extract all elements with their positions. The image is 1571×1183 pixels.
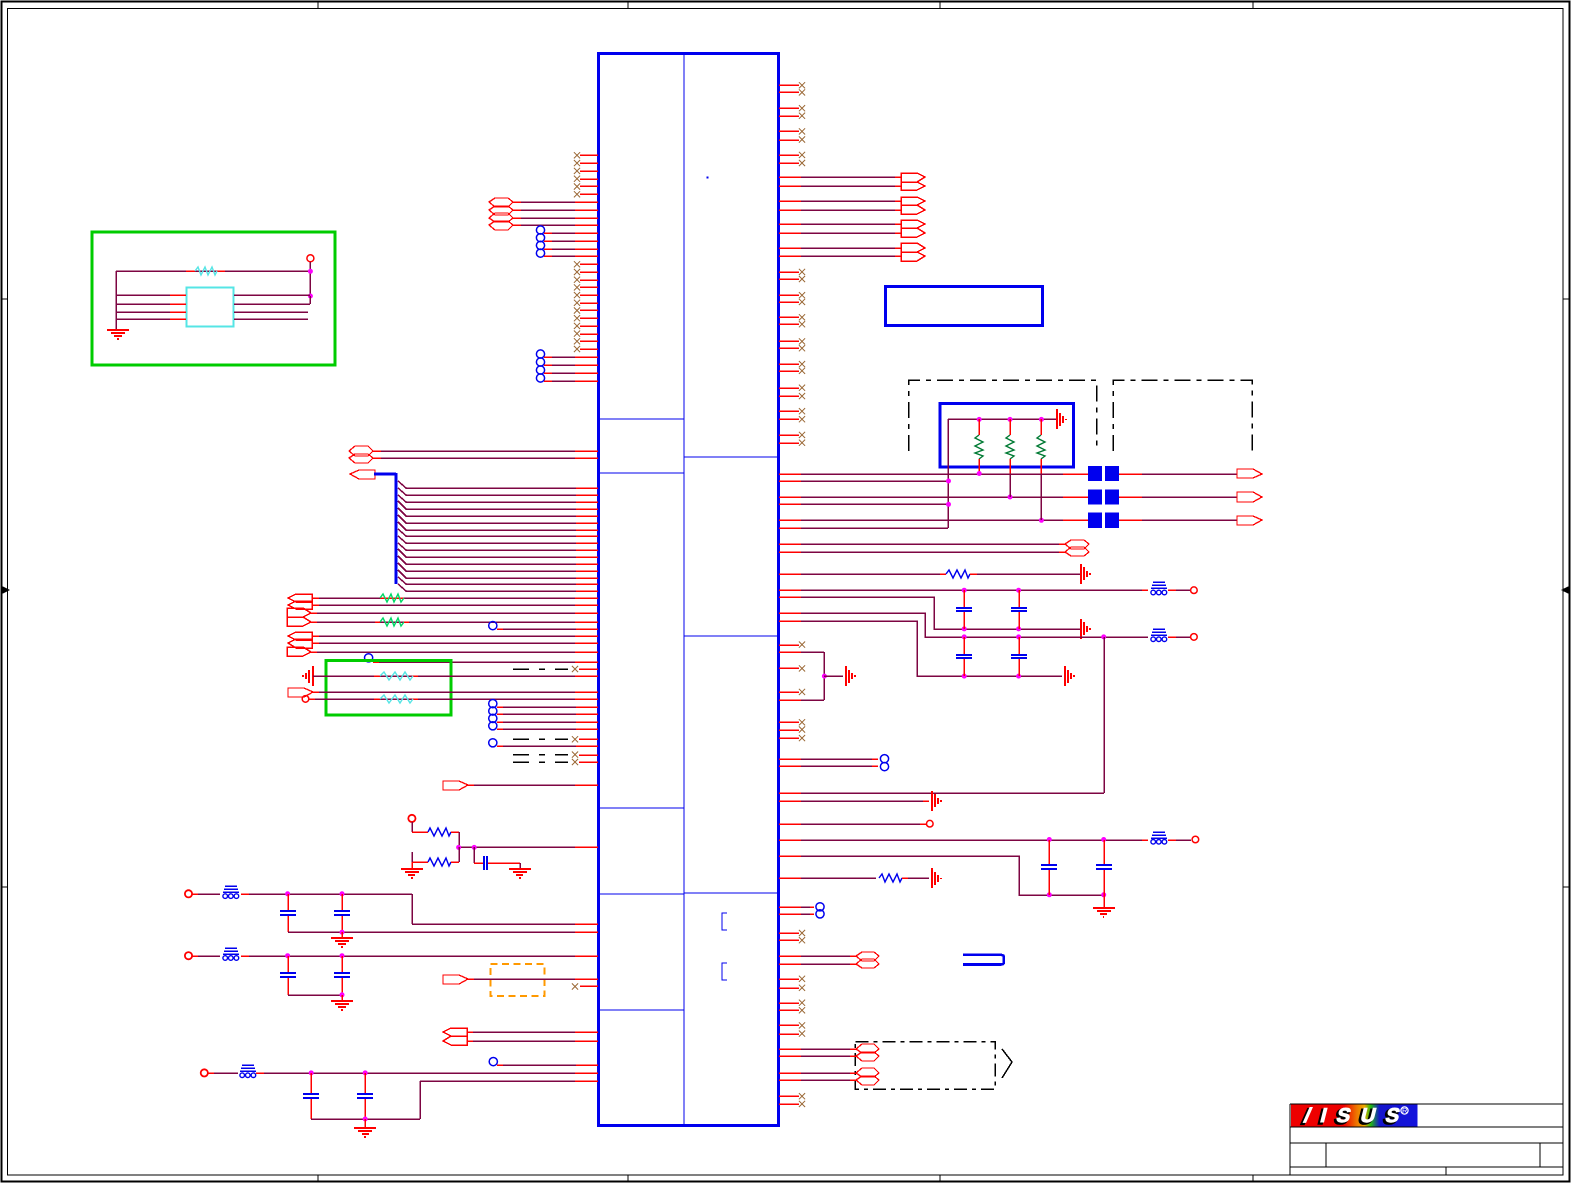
net bus with arrow connector [350, 470, 396, 584]
ferrite bead FB2 [223, 948, 239, 960]
left no-connect pin stubs group D [574, 261, 598, 352]
right open-circle pins rows 759-766 [779, 755, 889, 771]
title block grid [1290, 1104, 1563, 1175]
capacitor C bead2 b [334, 956, 350, 995]
wire row 793 to vertical net [779, 792, 1104, 794]
dash-dot box 1 [909, 380, 1097, 451]
sideways ground and wire row 676 [303, 666, 598, 686]
left open-circle pins group C [536, 226, 598, 257]
dash-dot box 2 [1113, 380, 1252, 451]
capacitor C row 840b [1096, 840, 1112, 895]
left double chevron connectors rows 636-643 [288, 632, 598, 648]
input circle and leads bead circuit 1 [185, 890, 249, 897]
blue resistor pack box [940, 404, 1073, 467]
right double chevron connectors rows 177-256 [779, 173, 925, 261]
open circle node and lead [408, 815, 428, 832]
dash-dot no-connect row 739 [513, 736, 598, 742]
left double chevron connectors rows 598-605 [288, 594, 598, 609]
input circle and leads bead circuit 2 [185, 952, 249, 959]
svg-text:R: R [1402, 1106, 1408, 1115]
right no-connect pin stubs group B [779, 269, 805, 446]
arrow connector row 497 [1119, 492, 1262, 502]
capacitor C bead3 b [357, 1073, 373, 1119]
right hexagon connectors rows 544-552 [779, 540, 1089, 556]
orange dashed box [490, 964, 544, 996]
arrow connector row 979 [443, 975, 598, 984]
IC U1 main block [599, 54, 779, 1126]
blue label box [885, 286, 1042, 325]
wire row 590 to bead [779, 588, 1148, 593]
arrow connector row 520 [1119, 516, 1262, 525]
IC U2 (cyan box) [186, 288, 233, 327]
open circle and wire row 699 [302, 696, 598, 703]
jumper symbol [963, 955, 1004, 965]
right no-connect stubs rows 933-940 [779, 930, 805, 943]
resistor R3 termination [1037, 419, 1045, 520]
vertical net 1104 [1103, 637, 1105, 793]
bus entry wires to IC left pins [398, 481, 598, 591]
bead output circle row 590 [1168, 587, 1197, 594]
ASUS logo [1291, 1105, 1418, 1129]
wire row 597 step to ground rail 629 [779, 597, 1090, 639]
wire row 613 step to bead rail 637 [779, 613, 1148, 639]
capacitor C row 637a [956, 637, 972, 676]
left open-circle pins group F rows 707-729 [489, 700, 598, 730]
wire row 801 to sideways ground [779, 791, 941, 811]
right open-circle pins rows 907-914 [779, 903, 824, 918]
ferrite bead FB4 [1151, 582, 1167, 595]
resistor R row 621 [375, 618, 409, 626]
open-circle pin row 1065 [489, 1058, 598, 1066]
resistor pack common rail and sideways ground [948, 409, 1066, 528]
capacitor C bead1 b [334, 894, 350, 932]
capacitor C bead3 a [303, 1073, 319, 1119]
input circle and leads bead circuit 3 [201, 1069, 264, 1076]
arrow connector and wire row 692 [288, 688, 598, 697]
green box 1 wires resistor R and ground [107, 255, 314, 339]
wire row 621 step to ground rail 676 [779, 621, 1074, 686]
right no-connect stubs rows 722-738 [779, 719, 805, 741]
right hexagon connectors rows 956-964 [779, 952, 879, 968]
right no-connect stubs rows 645-692 [779, 642, 805, 696]
ferrite bead FB5 [1151, 629, 1167, 642]
left hexagon net connectors group B [489, 198, 598, 230]
open-circle pin row 746 [489, 739, 598, 747]
bead 1 rail and step wire to IC row 924 [249, 891, 598, 924]
dash-dot no-connect row 669 [513, 666, 598, 672]
bead 2 bottom rail with ground [288, 992, 353, 1010]
ferrite bead FB6 [1151, 832, 1167, 844]
wire row 824 to open circle [779, 820, 933, 827]
resistor R1 termination [975, 419, 983, 474]
bead 2 rail to IC row 956 [249, 953, 598, 958]
green highlight box 1 [92, 232, 335, 365]
right no-connect pin stubs group A [779, 82, 805, 166]
left no-connect stub row 986 [572, 983, 598, 989]
wire resistor to junction [451, 847, 459, 862]
left box connector row 651 [287, 647, 598, 656]
left hexagon connectors rows 451-458 [349, 446, 598, 463]
right data rows to series packs [779, 471, 1088, 528]
green highlight box 2 [326, 661, 451, 715]
resistor R to sideways ground row 878 [779, 868, 941, 888]
resistor R row 862 [428, 858, 451, 866]
dash-dot no-connect row 762 [513, 759, 598, 765]
resistor R row 598 [380, 594, 404, 602]
capacitor C row 840a [1041, 840, 1057, 895]
right no-connect stubs rows 979-1034 [779, 976, 805, 1037]
dashed group box with chevron [855, 1042, 1012, 1090]
capacitor C row 590b [1011, 590, 1027, 629]
left box connector rows 1032-1041 [443, 1028, 598, 1045]
bead 3 bottom rail, ground and wire to IC row 1081 [311, 1081, 598, 1137]
wire row 840 to bead [779, 837, 1148, 842]
bead output circle row 637 [1168, 634, 1197, 641]
left open-circle pins group E [536, 350, 598, 382]
series element pair 1 [1088, 466, 1119, 481]
ferrite bead FB3 [240, 1065, 256, 1077]
left no-connect pin stubs group A [574, 152, 598, 197]
resistor R and sideways ground row 574 [779, 564, 1090, 584]
capacitor C bead2 a [280, 956, 296, 995]
resistor R2 termination [1006, 419, 1014, 497]
resistor lower lead and ground [401, 852, 428, 878]
capacitor C row 590a [956, 590, 972, 629]
bead output circle row 840 [1168, 836, 1199, 843]
open-circle pin row 629 [489, 622, 598, 630]
arrow connector row 473 [1119, 469, 1262, 478]
bead 1 bottom rail to IC row 932 with ground [288, 930, 598, 947]
series element pair 3 [1088, 513, 1119, 528]
wire row 856 step to rail 895 with ground [779, 856, 1115, 917]
right hexagon connectors rows 1049-1080 [779, 1044, 879, 1085]
ferrite bead FB1 [223, 886, 239, 898]
resistor R cyan row 676 [380, 672, 413, 680]
capacitor C bead1 a [280, 894, 296, 932]
series element pair 2 [1088, 489, 1119, 504]
capacitor C row 637b [1011, 637, 1027, 676]
capacitor C and ground row 863 [474, 847, 531, 878]
open-circle pin row 661 [365, 654, 599, 662]
bracket tie to sideways ground rows 652-700 [779, 652, 855, 700]
left box connector rows 613-621 [287, 608, 598, 626]
dash-dot no-connect row 755 [513, 752, 598, 758]
wire row 847 to IC [451, 832, 598, 850]
arrow connector row 785 [443, 781, 598, 790]
right no-connect stubs rows 1096-1104 [779, 1093, 805, 1107]
resistor R row 832 [428, 828, 451, 836]
bead 3 rail to IC row 1073 [264, 1070, 598, 1075]
resistor R cyan row 699 [380, 695, 413, 703]
